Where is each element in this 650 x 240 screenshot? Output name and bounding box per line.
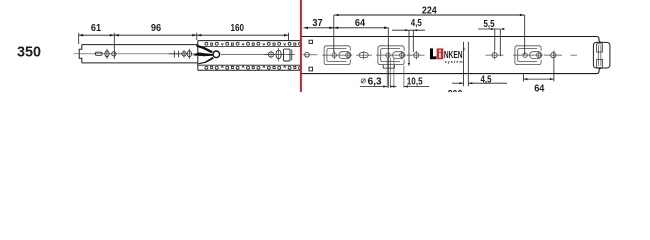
adjustment slot 1: [322, 46, 352, 65]
rear bracket top view: [593, 42, 610, 68]
lever ring: [213, 51, 220, 58]
svg-text:6,3: 6,3: [368, 76, 382, 88]
small oval hole A: [359, 53, 368, 58]
dimension line 10,5: [404, 86, 430, 88]
outer rail centerline: [221, 53, 295, 55]
vertical oval hole on inner rail: [105, 51, 109, 57]
extension lines 37-64: [334, 15, 389, 88]
round hole on outer rail: [268, 52, 273, 57]
slot hole on inner rail: [95, 52, 102, 55]
detent tab below slot 2: [383, 65, 394, 69]
vertical oval hole on outer rail: [276, 50, 281, 59]
left dimension chain line: [79, 34, 289, 36]
svg-text:96: 96: [151, 22, 161, 34]
round hole 2 on inner rail: [182, 52, 186, 56]
svg-text:61: 61: [91, 22, 101, 34]
svg-text:350: 350: [17, 44, 41, 61]
dimension line 224: [334, 14, 524, 16]
extension lines 6,3 / 10,5: [387, 58, 404, 88]
svg-text:system: system: [445, 60, 464, 64]
rear bracket side view: [284, 49, 291, 61]
inner rail (drawer member) side view: [79, 45, 198, 63]
round hole D: [551, 52, 556, 57]
dimension line 4,5 bottom: [452, 82, 464, 84]
dimension line 6,3: [360, 86, 387, 88]
svg-text:5,5: 5,5: [484, 18, 495, 30]
top view front circle hole: [305, 53, 310, 58]
dimension line 4,5 top: [392, 29, 425, 31]
vertical oval hole 2 on inner rail: [187, 51, 191, 57]
red break line: [300, 0, 302, 92]
dimension line 64 bottom: [523, 78, 554, 80]
svg-text:224: 224: [422, 4, 437, 16]
svg-text:10,5: 10,5: [407, 76, 423, 88]
logo red square with i: [437, 48, 444, 59]
svg-text:300: 300: [448, 88, 463, 92]
left extension lines: [79, 33, 289, 59]
dimension line 37-64: [304, 27, 389, 29]
ball bearing row bottom: [205, 66, 301, 69]
centerline dash: [571, 54, 578, 56]
extension line 224 right: [524, 15, 526, 55]
inner rail centerline: [74, 53, 197, 55]
top view square hole upper: [309, 40, 313, 43]
ball bearing row top: [205, 42, 301, 45]
adjustment slot 3: [513, 46, 543, 65]
top view square hole lower: [309, 67, 313, 71]
logo L letter: [430, 48, 436, 59]
svg-text:160: 160: [231, 22, 245, 34]
adjustment slot 2: [376, 46, 406, 65]
top view rail outline: [302, 37, 602, 74]
round hole B: [414, 53, 419, 58]
dimension text dia 6,3: [361, 79, 365, 83]
release lever (black): [192, 45, 213, 65]
dimension line 5,5: [478, 28, 500, 30]
svg-text:64: 64: [534, 82, 544, 92]
round hole C: [492, 53, 497, 58]
round hole on inner rail: [112, 52, 116, 56]
screw side view on inner rail: [169, 51, 183, 58]
outer rail cassette side view: [198, 41, 300, 71]
svg-text:4,5: 4,5: [411, 17, 422, 29]
left dim arrows: [79, 34, 289, 37]
